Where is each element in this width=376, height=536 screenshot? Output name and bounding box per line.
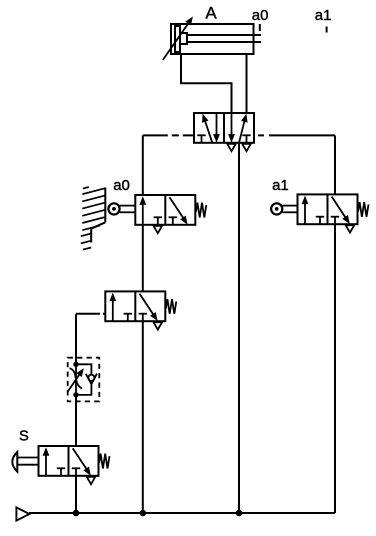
spring S valve [99, 454, 109, 469]
spring a0 valve [196, 203, 206, 218]
wire cylinder left port to valve port 4 [181, 54, 232, 113]
junction dot top [73, 362, 78, 367]
valve 5/2 main (double pilot) [194, 113, 254, 143]
exhaust S valve [87, 477, 96, 484]
exhaust 5 main valve [227, 144, 236, 151]
svg-text:S: S [19, 428, 29, 445]
junction left column-manifold [140, 510, 147, 517]
roller a1 [271, 203, 282, 214]
exhaust a0 valve [154, 226, 163, 233]
valve 3/2 pilot operated [105, 291, 165, 321]
junction dot bottom [73, 392, 78, 397]
wire pilot corner to a1 valve [334, 135, 336, 194]
valve 3/2 roller a0 (shown actuated) [135, 195, 195, 225]
spring a1 valve [358, 202, 368, 217]
wire middle valve to manifold [142, 321, 144, 513]
exhaust a1 valve [346, 225, 355, 232]
throttle restriction [70, 368, 76, 378]
throttle adjust arrow [68, 371, 82, 392]
wire a1 valve to manifold [334, 224, 336, 513]
wire pilot corner down to flow control [75, 314, 77, 365]
wire main valve supply [238, 143, 240, 513]
plunger S [17, 457, 38, 459]
flow control dashed enclosure [68, 358, 100, 402]
roller a0 [108, 203, 119, 214]
wire S valve to manifold [75, 476, 77, 513]
svg-text:a0: a0 [252, 7, 269, 24]
plunger a1 [282, 205, 297, 207]
svg-text:A: A [205, 3, 217, 22]
bypass wire [76, 364, 91, 395]
cushion adjust arrow [163, 20, 191, 60]
svg-text:a0: a0 [113, 177, 130, 194]
spring middle valve [166, 299, 176, 314]
wire throttle main line [75, 364, 77, 395]
svg-text:a1: a1 [315, 7, 332, 24]
wire flow control to S valve [75, 395, 77, 446]
pilot line middle valve [76, 313, 105, 315]
valve 3/2 push button S [39, 446, 99, 476]
valve 3/2 roller a1 [298, 194, 358, 224]
wire cylinder right port to valve port 2 [246, 54, 248, 113]
plunger a0 [120, 205, 136, 207]
cam wall at a0 [104, 188, 106, 223]
pilot line right (to main valve port 12) [254, 134, 335, 136]
cylinder A (double-acting, adjustable cushioning) [171, 24, 254, 54]
compressed air source [16, 507, 29, 520]
wire a0 valve to middle valve [142, 225, 144, 292]
junction S-manifold [73, 510, 80, 517]
exhaust middle valve [154, 322, 163, 329]
wire pilot corner to a0 valve [142, 135, 144, 195]
supply manifold [29, 512, 335, 514]
pilot line left (to main valve port 14) [143, 134, 194, 136]
exhaust 3 main valve [242, 144, 251, 151]
push button S [12, 452, 17, 472]
check valve [88, 375, 94, 381]
svg-text:a1: a1 [272, 177, 289, 194]
junction supply-manifold [236, 510, 243, 517]
